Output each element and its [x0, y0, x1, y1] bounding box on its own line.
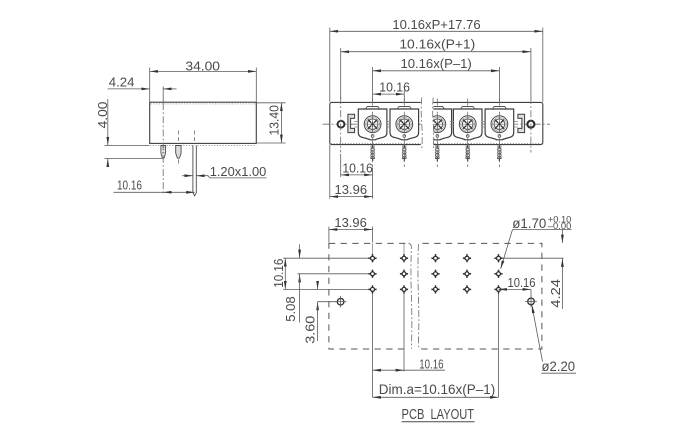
svg-text:10.16xP+17.76: 10.16xP+17.76 [392, 17, 480, 32]
front view: terminal cell 1 with screw [358, 107, 387, 162]
svg-text:10.16: 10.16 [508, 275, 536, 290]
PCB layout: pin hole col 5 row 2 [494, 270, 502, 278]
PCB layout: right mounting hole [525, 296, 537, 308]
label diameter 1.70 +0.10/-0.00 [501, 214, 572, 269]
front view: right mounting hole [527, 121, 534, 128]
front view: break lines [421, 96, 434, 152]
front view: connector body [330, 102, 543, 144]
svg-text:10.16: 10.16 [342, 161, 373, 176]
svg-text:10.16: 10.16 [117, 178, 142, 193]
dimension Dim.a=10.16x(P-1) [373, 381, 499, 398]
side view: pin 1 centerline [162, 87, 164, 195]
side view: pin 3 (long solder pin) [193, 146, 196, 196]
PCB layout: pin hole col 3 row 2 [431, 270, 439, 278]
PCB layout: pin hole col 1 row 2 [368, 270, 376, 278]
side view: pin 2 (short) [176, 146, 181, 159]
svg-text:3.60: 3.60 [302, 316, 317, 344]
svg-text:10.16x(P–1): 10.16x(P–1) [400, 56, 471, 71]
svg-text:10.16: 10.16 [379, 80, 410, 95]
dimension 13.96 (front) [330, 145, 373, 199]
front view: left mounting hole [338, 121, 345, 128]
front view: cell centerlines [373, 99, 500, 168]
dimension 13.40 [257, 103, 286, 143]
PCB layout: row extension lines [283, 258, 563, 289]
dimension 13.96 (PCB) [329, 215, 373, 242]
dimension 10.16 (PCB right, hole to mounting) [499, 275, 536, 298]
PCB layout: pin hole col 1 row 1 [368, 254, 376, 262]
front view: mounting hole centerlines [341, 97, 531, 153]
svg-text:4.00: 4.00 [95, 102, 110, 129]
svg-text:–0.00: –0.00 [548, 221, 572, 231]
front view: terminal cell 2 with screw [390, 107, 419, 162]
dimension 10.16x(P+1) [341, 37, 531, 100]
PCB layout: pin hole col 2 row 1 [400, 254, 408, 262]
svg-text:PCB LAYOUT: PCB LAYOUT [402, 407, 475, 423]
dimension 10.16 (side view pin spacing) [114, 178, 195, 193]
svg-text:10.16: 10.16 [271, 259, 286, 288]
PCB layout: column extension lines [373, 243, 499, 397]
PCB layout: pin hole col 2 row 3 [400, 285, 408, 293]
dimension 10.16 (PCB rows 1-3) [271, 258, 286, 289]
side view: pin 3 hidden line [194, 131, 196, 142]
label diameter 2.20 with leader [532, 305, 576, 374]
title: PCB LAYOUT [402, 407, 475, 423]
svg-text:10.16x(P+1): 10.16x(P+1) [399, 37, 475, 52]
svg-text:34.00: 34.00 [185, 58, 220, 73]
front view: horizontal centerline [323, 123, 551, 125]
side view: pin 2 hidden line [177, 131, 179, 166]
dimension 34.00 [150, 58, 257, 101]
PCB layout: pin hole col 4 row 3 [463, 285, 471, 293]
PCB layout: board outline (dashed) [329, 243, 542, 349]
svg-text:4.24: 4.24 [548, 279, 563, 308]
PCB layout: pin hole col 1 row 3 [368, 285, 376, 293]
front view: left clamp clip [348, 114, 355, 132]
PCB layout: pin hole col 4 row 2 [463, 270, 471, 278]
dimension 10.16x(P-1) [373, 56, 500, 101]
dimension 4.24 [108, 74, 177, 89]
svg-text:1.20x1.00: 1.20x1.00 [210, 164, 267, 179]
dimension 1.20x1.00 (pin cross-section) [182, 164, 267, 179]
side view: pin 1 (short) [161, 146, 166, 159]
dimension 10.16 (PCB bottom pitch) [373, 357, 446, 372]
side view: connector body [150, 102, 257, 145]
dimension 3.60 [302, 282, 337, 344]
front view: right clamp clip [518, 114, 525, 132]
svg-text:13.96: 13.96 [334, 215, 366, 230]
svg-text:Dim.a=10.16x(P–1): Dim.a=10.16x(P–1) [379, 381, 496, 397]
svg-text:ø2.20: ø2.20 [542, 359, 576, 374]
front view: terminal cell 3 with screw [423, 107, 452, 162]
svg-text:13.40: 13.40 [266, 105, 281, 136]
svg-text:10.16: 10.16 [419, 357, 443, 372]
PCB layout: left mounting hole [335, 296, 347, 308]
PCB layout: pin hole col 5 row 1 [494, 254, 502, 262]
PCB layout: pin hole col 5 row 3 [494, 285, 502, 293]
PCB layout: pin hole col 3 row 1 [431, 254, 439, 262]
PCB layout: pin hole col 2 row 2 [400, 270, 408, 278]
svg-text:4.24: 4.24 [109, 74, 135, 89]
dimension 4.00 [95, 99, 162, 167]
svg-text:5.08: 5.08 [283, 296, 298, 321]
dimension 4.24 (PCB) [548, 230, 563, 310]
dimension 10.16 (front pitch) [373, 80, 410, 101]
dimension 10.16 (flange to first pole) [341, 154, 373, 199]
svg-text:ø1.70: ø1.70 [512, 216, 546, 231]
front view: wall hatching between cells [354, 121, 518, 127]
front view: terminal cell 4 with screw [453, 107, 482, 162]
front view: terminal cell 5 with screw [485, 107, 514, 162]
PCB layout: pin hole col 4 row 1 [463, 254, 471, 262]
PCB layout: pin hole col 3 row 3 [431, 285, 439, 293]
svg-text:13.96: 13.96 [335, 182, 368, 197]
PCB layout: break lines [409, 241, 422, 351]
dimension 5.08 [283, 244, 299, 322]
dimension 10.16xP+17.76 [330, 17, 543, 102]
